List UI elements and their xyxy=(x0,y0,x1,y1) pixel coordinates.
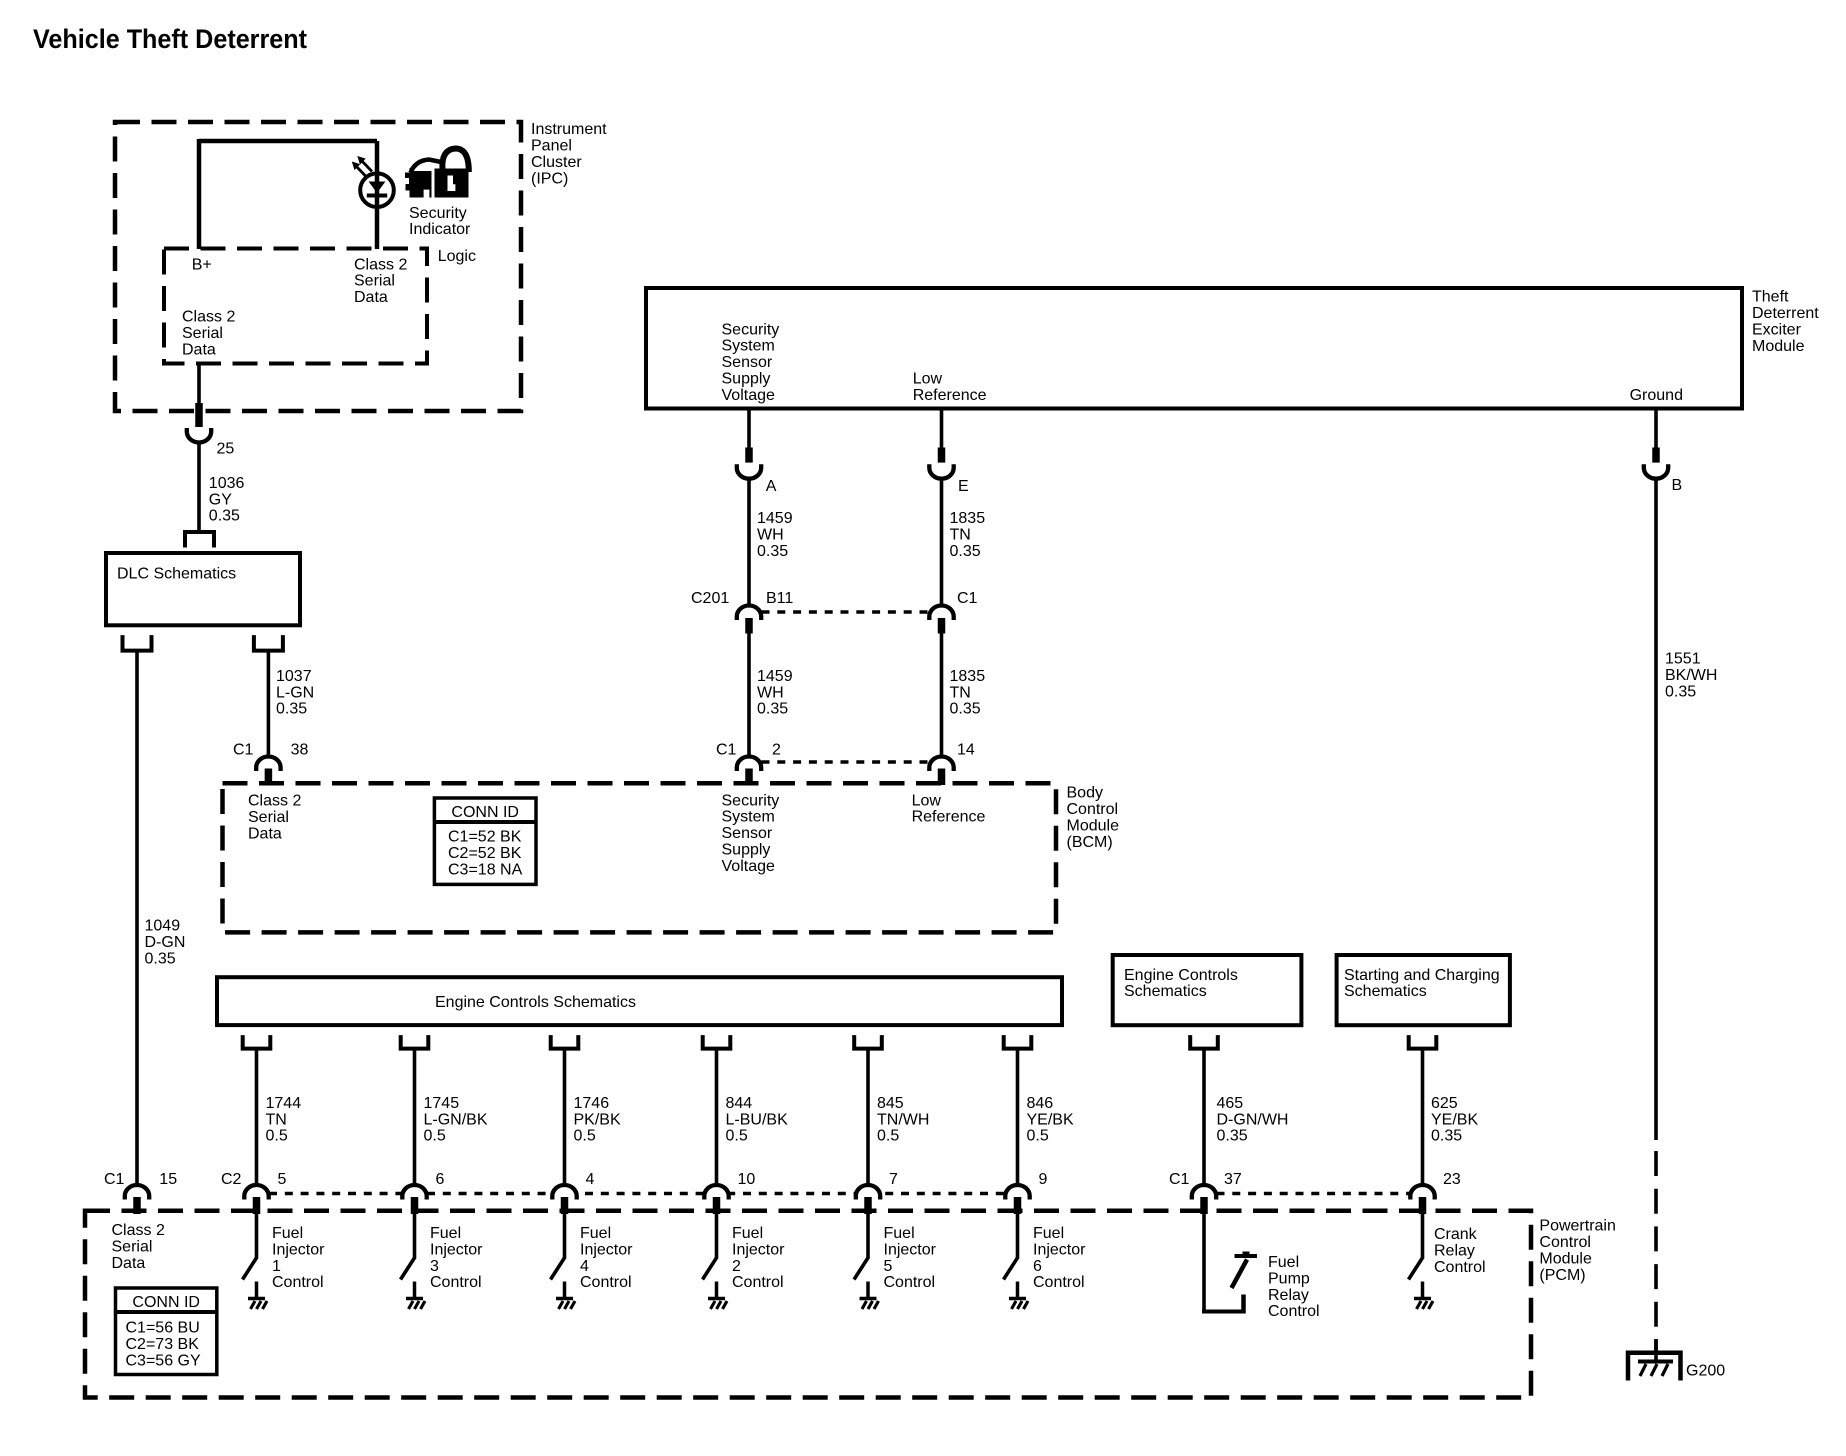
svg-text:2: 2 xyxy=(772,742,781,759)
svg-text:Module: Module xyxy=(1752,338,1805,355)
page reference staple (injector 5 wire) xyxy=(854,1035,882,1049)
svg-text:Security: Security xyxy=(409,205,467,222)
svg-text:Fuel: Fuel xyxy=(1033,1225,1064,1242)
wire: Class 2 Serial Data out of IPC xyxy=(197,364,201,411)
label: Fuel Injector 1 Control xyxy=(272,1225,325,1291)
label: Powertrain Control Module (PCM) xyxy=(1539,1218,1615,1285)
wire label: 1049 D-GN 0.35 xyxy=(145,918,186,968)
svg-text:1459: 1459 xyxy=(757,668,793,685)
svg-text:0.35: 0.35 xyxy=(1217,1128,1248,1145)
wire 1459 WH (lower) xyxy=(747,634,751,759)
svg-text:L-BU/BK: L-BU/BK xyxy=(726,1111,789,1128)
svg-text:0.35: 0.35 xyxy=(950,701,981,718)
label: terminal B xyxy=(1672,477,1683,494)
page reference staple (465 wire) xyxy=(1190,1035,1218,1049)
label: terminal 7 xyxy=(889,1171,898,1188)
connector terminal 9 (dome) xyxy=(1005,1185,1029,1199)
svg-text:Class 2: Class 2 xyxy=(248,793,301,810)
block: Engine Controls Schematics xyxy=(217,977,1062,1025)
svg-text:465: 465 xyxy=(1217,1095,1244,1112)
svg-text:C2: C2 xyxy=(221,1171,242,1188)
wire 1835 TN (lower) xyxy=(940,634,944,759)
svg-text:Schematics: Schematics xyxy=(1124,983,1207,1000)
connector pin 37 into PCM xyxy=(1200,1197,1208,1214)
switch: fuel pump relay driver xyxy=(1202,1214,1257,1314)
label: terminal 10 xyxy=(738,1171,756,1188)
wire 1744 TN xyxy=(255,1049,259,1187)
page reference staple (injector 2 wire) xyxy=(703,1035,731,1049)
svg-text:YE/BK: YE/BK xyxy=(1431,1111,1478,1128)
svg-text:E: E xyxy=(958,478,969,495)
svg-text:Fuel: Fuel xyxy=(732,1225,763,1242)
svg-text:Fuel: Fuel xyxy=(884,1225,915,1242)
svg-text:0.35: 0.35 xyxy=(276,701,307,718)
svg-text:1: 1 xyxy=(272,1258,281,1275)
wire label: 465 D-GN/WH 0.35 xyxy=(1217,1095,1289,1145)
svg-text:1744: 1744 xyxy=(266,1095,302,1112)
svg-text:WH: WH xyxy=(757,527,784,544)
svg-text:Pump: Pump xyxy=(1268,1270,1310,1287)
svg-text:Module: Module xyxy=(1539,1251,1592,1268)
wire label: 1744 TN 0.5 xyxy=(266,1095,302,1145)
svg-text:Control: Control xyxy=(1067,801,1119,818)
label: Fuel Injector 4 Control xyxy=(580,1225,633,1291)
label: Theft Deterrent Exciter Module xyxy=(1752,288,1819,355)
label: Ground (exciter) xyxy=(1630,387,1683,404)
svg-text:Ground: Ground xyxy=(1630,387,1683,404)
svg-text:(IPC): (IPC) xyxy=(531,171,568,188)
svg-text:Control: Control xyxy=(1268,1303,1320,1320)
switch: fuel injector 6 driver xyxy=(1004,1214,1029,1309)
svg-text:0.35: 0.35 xyxy=(757,701,788,718)
label: Class 2 Serial Data (left pin) xyxy=(182,309,235,359)
svg-text:Serial: Serial xyxy=(112,1238,153,1255)
wire label: 1037 L-GN 0.35 xyxy=(276,668,314,718)
svg-text:Injector: Injector xyxy=(430,1241,483,1258)
svg-text:TN: TN xyxy=(950,684,971,701)
wire label: 1746 PK/BK 0.5 xyxy=(574,1095,621,1145)
svg-text:C1: C1 xyxy=(716,742,737,759)
module box: Theft Deterrent Exciter Module xyxy=(646,288,1742,409)
svg-text:Fuel: Fuel xyxy=(430,1225,461,1242)
svg-text:Crank: Crank xyxy=(1434,1226,1478,1243)
label: terminal B11 xyxy=(766,590,793,607)
wire 844 L-BU/BK xyxy=(715,1049,719,1187)
svg-text:D-GN/WH: D-GN/WH xyxy=(1217,1111,1289,1128)
wire label: 846 YE/BK 0.5 xyxy=(1027,1095,1074,1145)
svg-text:B+: B+ xyxy=(192,256,212,273)
LED diode triangle and cathode bar xyxy=(367,182,387,196)
wire 845 TN/WH xyxy=(866,1049,870,1187)
label: Low Reference (BCM) xyxy=(912,792,986,825)
switch: fuel injector 5 driver xyxy=(854,1214,879,1309)
svg-text:5: 5 xyxy=(278,1171,287,1188)
switch: fuel injector 1 driver xyxy=(243,1214,268,1309)
svg-text:G200: G200 xyxy=(1686,1363,1725,1380)
in-line connector dashed link (PCM injector pins) xyxy=(269,1192,1005,1196)
svg-text:Powertrain: Powertrain xyxy=(1539,1218,1615,1235)
svg-text:Panel: Panel xyxy=(531,138,572,155)
connector pin 10 into PCM xyxy=(713,1197,721,1214)
svg-text:System: System xyxy=(722,809,775,826)
svg-text:Serial: Serial xyxy=(248,809,289,826)
wire 1551 BK/WH dashed part xyxy=(1654,1151,1658,1352)
svg-text:Injector: Injector xyxy=(884,1241,937,1258)
label: Fuel Injector 3 Control xyxy=(430,1225,483,1291)
connector pin 15 into PCM xyxy=(133,1197,141,1214)
connector pin 2 into BCM xyxy=(745,769,753,786)
label: B+ xyxy=(192,256,212,273)
connector terminal 5 (dome) xyxy=(244,1185,268,1200)
svg-text:Voltage: Voltage xyxy=(722,387,775,404)
page reference staple (625 wire) xyxy=(1409,1035,1437,1049)
svg-text:6: 6 xyxy=(436,1171,445,1188)
wire 1551 BK/WH solid part xyxy=(1654,478,1658,1141)
svg-text:15: 15 xyxy=(159,1171,177,1188)
svg-text:TN/WH: TN/WH xyxy=(877,1111,929,1128)
label: Starting and Charging Schematics xyxy=(1344,967,1500,1000)
in-line connector dashed link (37-23) xyxy=(1217,1192,1411,1196)
label: connector C201 xyxy=(691,590,729,607)
svg-text:CONN ID: CONN ID xyxy=(132,1294,200,1311)
connector pin 6 into PCM xyxy=(411,1197,419,1214)
svg-text:0.5: 0.5 xyxy=(1027,1128,1049,1145)
label: Instrument Panel Cluster (IPC) xyxy=(531,121,607,188)
svg-text:1036: 1036 xyxy=(209,475,245,492)
svg-text:B: B xyxy=(1672,477,1683,494)
svg-text:YE/BK: YE/BK xyxy=(1027,1111,1074,1128)
svg-text:L-GN/BK: L-GN/BK xyxy=(424,1111,488,1128)
wire from exciter pin E xyxy=(940,409,944,449)
svg-text:Relay: Relay xyxy=(1434,1242,1475,1259)
connector pin 4 into PCM xyxy=(561,1197,569,1214)
svg-text:0.5: 0.5 xyxy=(424,1128,446,1145)
svg-text:Control: Control xyxy=(884,1274,936,1291)
connector C201 pin C1 xyxy=(938,618,946,634)
connector pin B xyxy=(1652,448,1660,463)
label: Security Indicator xyxy=(409,205,471,238)
page reference staple (G200) xyxy=(1628,1353,1681,1381)
connector C201 terminal B11 (dome) xyxy=(737,606,761,621)
connector pin 14 into BCM xyxy=(938,769,946,786)
label: Class 2 Serial Data (right pin) xyxy=(354,256,407,306)
svg-text:0.5: 0.5 xyxy=(877,1128,899,1145)
in-line connector dashed link C201 xyxy=(762,610,929,614)
svg-text:0.5: 0.5 xyxy=(266,1128,288,1145)
svg-text:BK/WH: BK/WH xyxy=(1665,667,1717,684)
svg-text:(PCM): (PCM) xyxy=(1539,1267,1585,1284)
svg-text:Starting and Charging: Starting and Charging xyxy=(1344,967,1500,984)
svg-text:C1: C1 xyxy=(104,1171,125,1188)
label: Low Reference (exciter) xyxy=(913,371,987,404)
svg-text:TN: TN xyxy=(950,527,971,544)
label: Fuel Injector 5 Control xyxy=(884,1225,937,1291)
svg-text:Control: Control xyxy=(272,1274,324,1291)
svg-text:0.35: 0.35 xyxy=(1431,1128,1462,1145)
wire 1835 TN (upper) xyxy=(940,478,944,608)
svg-text:Fuel: Fuel xyxy=(580,1225,611,1242)
svg-text:C2=73 BK: C2=73 BK xyxy=(126,1336,200,1353)
label: terminal 25 xyxy=(217,440,235,457)
connector pin 5 into PCM xyxy=(253,1197,261,1214)
svg-text:1746: 1746 xyxy=(574,1095,610,1112)
svg-text:Vehicle Theft Deterrent: Vehicle Theft Deterrent xyxy=(33,24,307,54)
svg-text:3: 3 xyxy=(430,1258,439,1275)
wire 1459 WH (upper) xyxy=(747,478,751,608)
svg-text:0.35: 0.35 xyxy=(1665,683,1696,700)
label: terminal 9 xyxy=(1039,1171,1048,1188)
svg-text:Exciter: Exciter xyxy=(1752,321,1802,338)
svg-text:Reference: Reference xyxy=(913,387,987,404)
wire 465 D-GN/WH xyxy=(1202,1049,1206,1187)
wire 625 YE/BK xyxy=(1421,1049,1425,1187)
label: terminal 23 xyxy=(1443,1171,1461,1188)
svg-text:4: 4 xyxy=(580,1258,589,1275)
connector pin 7 into PCM xyxy=(864,1197,872,1214)
svg-text:Serial: Serial xyxy=(354,273,395,290)
wire 1049 D-GN xyxy=(135,651,139,1187)
svg-text:PK/BK: PK/BK xyxy=(574,1111,621,1128)
label: connector C2 (PCM) xyxy=(221,1171,242,1188)
svg-text:Control: Control xyxy=(1434,1259,1486,1276)
svg-text:14: 14 xyxy=(957,742,975,759)
svg-text:9: 9 xyxy=(1039,1171,1048,1188)
svg-text:Logic: Logic xyxy=(438,248,476,265)
svg-text:1551: 1551 xyxy=(1665,651,1701,668)
svg-text:System: System xyxy=(722,338,775,355)
ground symbol G200 xyxy=(1638,1339,1673,1376)
label: connector C1 (PCM, pin 37) xyxy=(1169,1171,1242,1188)
svg-text:WH: WH xyxy=(757,684,784,701)
connector C201 terminal C1 (dome) xyxy=(929,606,953,621)
connector terminal 10 (dome) xyxy=(704,1185,728,1200)
connector terminal 14 (dome) xyxy=(929,757,953,772)
label: Fuel Injector 6 Control xyxy=(1033,1225,1086,1291)
svg-text:0.35: 0.35 xyxy=(209,508,240,525)
label: Security System Sensor Supply Voltage (BCM) xyxy=(722,792,780,875)
table: CONN ID (PCM) xyxy=(116,1288,217,1375)
svg-text:C1=56 BU: C1=56 BU xyxy=(126,1320,200,1337)
connector terminal E (female cup) xyxy=(929,464,953,479)
switch: fuel injector 3 driver xyxy=(401,1214,426,1309)
connector terminal 7 (dome) xyxy=(856,1185,880,1200)
svg-text:(BCM): (BCM) xyxy=(1067,834,1113,851)
svg-text:10: 10 xyxy=(738,1171,756,1188)
svg-text:Sensor: Sensor xyxy=(722,354,773,371)
svg-text:L-GN: L-GN xyxy=(276,684,314,701)
svg-text:1835: 1835 xyxy=(950,510,986,527)
svg-text:D-GN: D-GN xyxy=(145,934,186,951)
label: Engine Controls Schematics (small) xyxy=(1124,967,1238,1000)
svg-text:Injector: Injector xyxy=(580,1241,633,1258)
svg-text:844: 844 xyxy=(726,1095,753,1112)
connector pin 9 into PCM xyxy=(1014,1197,1022,1214)
wire label: 625 YE/BK 0.35 xyxy=(1431,1095,1478,1145)
svg-text:Deterrent: Deterrent xyxy=(1752,305,1819,322)
wire 1037 L-GN xyxy=(267,651,271,758)
inner dashed box (IPC logic block) xyxy=(164,249,427,364)
svg-text:Security: Security xyxy=(722,792,780,809)
label: terminal C1 (C201 right) xyxy=(957,590,978,607)
svg-text:C3=18 NA: C3=18 NA xyxy=(448,861,523,878)
label: connector C1 (PCM, pin 15) xyxy=(104,1171,177,1188)
connector C201 pin B11 xyxy=(745,618,753,634)
wire 846 YE/BK xyxy=(1016,1049,1020,1187)
wire 1036 GY xyxy=(197,442,201,531)
svg-text:Schematics: Schematics xyxy=(1344,983,1427,1000)
svg-text:Class 2: Class 2 xyxy=(112,1222,165,1239)
label: terminal 14 xyxy=(957,742,975,759)
table: CONN ID (BCM) xyxy=(434,798,536,884)
wire label: 845 TN/WH 0.5 xyxy=(877,1095,929,1145)
svg-text:GY: GY xyxy=(209,491,232,508)
wire label: 1551 BK/WH 0.35 xyxy=(1665,651,1717,701)
connector pin E xyxy=(938,448,946,463)
svg-text:5: 5 xyxy=(884,1258,893,1275)
label: terminal 5 xyxy=(278,1171,287,1188)
svg-text:Injector: Injector xyxy=(732,1241,785,1258)
svg-text:Control: Control xyxy=(732,1274,784,1291)
svg-text:1745: 1745 xyxy=(424,1095,460,1112)
svg-text:37: 37 xyxy=(1224,1171,1242,1188)
label: Fuel Injector 2 Control xyxy=(732,1225,785,1291)
connector terminal 4 (dome) xyxy=(552,1185,576,1200)
svg-text:4: 4 xyxy=(586,1171,595,1188)
svg-text:0.5: 0.5 xyxy=(574,1128,596,1145)
block: Engine Controls Schematics (small) xyxy=(1113,955,1302,1025)
svg-text:B11: B11 xyxy=(766,590,793,607)
title xyxy=(33,24,307,54)
svg-text:Module: Module xyxy=(1067,817,1120,834)
switch: fuel injector 4 driver xyxy=(551,1214,576,1309)
svg-text:Data: Data xyxy=(112,1255,146,1272)
svg-text:Low: Low xyxy=(912,792,942,809)
svg-text:C1=52 BK: C1=52 BK xyxy=(448,829,522,846)
connector terminal 15 (dome) xyxy=(125,1185,149,1199)
svg-text:1037: 1037 xyxy=(276,668,312,685)
page reference staple into DLC xyxy=(185,532,214,548)
connector pin A xyxy=(745,448,753,463)
svg-text:Engine Controls: Engine Controls xyxy=(1124,967,1238,984)
svg-text:846: 846 xyxy=(1027,1095,1054,1112)
label: connector C1 (BCM, pin 38) xyxy=(233,742,308,759)
connector terminal 37 (dome) xyxy=(1192,1185,1216,1200)
wire label: 1459 WH 0.35 (upper) xyxy=(757,510,793,560)
block: DLC Schematics xyxy=(106,553,300,625)
label: Engine Controls Schematics xyxy=(435,994,636,1011)
svg-text:DLC Schematics: DLC Schematics xyxy=(117,565,236,582)
wire from exciter Ground xyxy=(1654,409,1658,449)
label: terminal 4 xyxy=(586,1171,595,1188)
icon: car with padlock (security indicator) xyxy=(405,149,469,198)
svg-text:Security: Security xyxy=(722,321,780,338)
block: Starting and Charging Schematics xyxy=(1337,955,1510,1025)
svg-text:Control: Control xyxy=(430,1274,482,1291)
svg-text:845: 845 xyxy=(877,1095,904,1112)
svg-text:C3=56 GY: C3=56 GY xyxy=(126,1353,201,1370)
svg-text:Control: Control xyxy=(1539,1234,1591,1251)
svg-text:Class 2: Class 2 xyxy=(354,256,407,273)
page reference staple (injector 4 wire) xyxy=(551,1035,579,1049)
svg-text:0.5: 0.5 xyxy=(726,1128,748,1145)
svg-text:C201: C201 xyxy=(691,590,729,607)
svg-text:38: 38 xyxy=(291,742,309,759)
wire from exciter pin A xyxy=(747,409,751,449)
svg-text:Engine Controls Schematics: Engine Controls Schematics xyxy=(435,994,636,1011)
page reference staple out of DLC (right) xyxy=(254,635,283,651)
svg-text:Injector: Injector xyxy=(1033,1241,1086,1258)
wire label: 1745 L-GN/BK 0.5 xyxy=(424,1095,488,1145)
label: connector C1 (BCM, pin 2) xyxy=(716,742,781,759)
module box: Powertrain Control Module (PCM), dashed xyxy=(85,1211,1531,1398)
svg-text:C1: C1 xyxy=(233,742,254,759)
label: DLC Schematics xyxy=(117,565,236,582)
lamp indicator LED circle xyxy=(360,173,394,207)
switch: crank relay driver xyxy=(1409,1214,1434,1309)
label: terminal A xyxy=(766,478,777,495)
svg-text:6: 6 xyxy=(1033,1258,1042,1275)
svg-text:CONN ID: CONN ID xyxy=(451,804,519,821)
label: Class 2 Serial Data (PCM) xyxy=(112,1222,165,1272)
label: Class 2 Serial Data (BCM) xyxy=(248,793,301,843)
svg-text:Data: Data xyxy=(248,825,282,842)
label: terminal E xyxy=(958,478,969,495)
module box: Body Control Module (BCM), dashed xyxy=(223,783,1057,932)
svg-text:Voltage: Voltage xyxy=(722,858,775,875)
svg-text:0.35: 0.35 xyxy=(145,951,176,968)
wire label: 1459 WH 0.35 (lower) xyxy=(757,668,793,718)
svg-text:A: A xyxy=(766,478,777,495)
svg-text:1459: 1459 xyxy=(757,510,793,527)
svg-text:625: 625 xyxy=(1431,1095,1458,1112)
wire B+ feed (horizontal + verticals) xyxy=(199,139,377,249)
page reference staple (injector 6 wire) xyxy=(1004,1035,1032,1049)
connector terminal 25 (female cup) xyxy=(187,428,211,443)
svg-text:0.35: 0.35 xyxy=(757,543,788,560)
svg-text:Reference: Reference xyxy=(912,809,986,826)
svg-text:Indicator: Indicator xyxy=(409,221,471,238)
switch: fuel injector 2 driver xyxy=(703,1214,728,1309)
wire 1746 PK/BK xyxy=(563,1049,567,1187)
svg-text:2: 2 xyxy=(732,1258,741,1275)
connector terminal B (female cup) xyxy=(1644,464,1668,479)
svg-text:23: 23 xyxy=(1443,1171,1461,1188)
svg-text:0.35: 0.35 xyxy=(950,543,981,560)
svg-text:Class 2: Class 2 xyxy=(182,309,235,326)
svg-text:Theft: Theft xyxy=(1752,288,1789,305)
connector terminal 6 (dome) xyxy=(402,1185,426,1199)
label: Logic xyxy=(438,248,476,265)
svg-text:C2=52 BK: C2=52 BK xyxy=(448,845,522,862)
svg-text:1835: 1835 xyxy=(950,668,986,685)
connector terminal 38 (female dome) xyxy=(256,757,280,772)
svg-text:Supply: Supply xyxy=(722,371,771,388)
wire label: 1835 TN 0.35 (lower) xyxy=(950,668,986,718)
svg-text:Injector: Injector xyxy=(272,1241,325,1258)
svg-text:Control: Control xyxy=(1033,1274,1085,1291)
page reference staple (injector 3 wire) xyxy=(401,1035,429,1049)
page reference staple (injector 1 wire) xyxy=(243,1035,271,1049)
svg-text:Body: Body xyxy=(1067,784,1103,801)
svg-text:Fuel: Fuel xyxy=(1268,1254,1299,1271)
svg-text:Data: Data xyxy=(182,341,216,358)
svg-text:7: 7 xyxy=(889,1171,898,1188)
label: Fuel Pump Relay Control xyxy=(1268,1254,1320,1320)
connector terminal 23 (dome) xyxy=(1410,1185,1434,1200)
connector pin 25 at IPC xyxy=(195,403,203,427)
page reference staple out of DLC (left) xyxy=(123,635,152,651)
label: Crank Relay Control xyxy=(1434,1226,1486,1276)
